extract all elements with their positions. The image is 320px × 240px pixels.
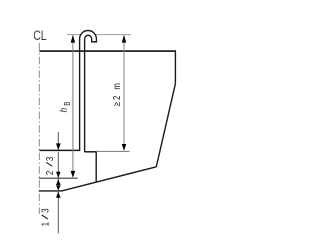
lower deck ledge (right of pipe) — [85, 151, 97, 153]
dimension &ge;2m top arrowhead — [122, 35, 126, 43]
svg-text:1: 1 — [40, 222, 51, 226]
hull side slant — [156, 84, 175, 167]
label 1/3 — [40, 208, 51, 226]
top extension line (level of gooseneck) — [67, 34, 131, 36]
svg-text:CL: CL — [33, 27, 46, 43]
hull side vertical — [174, 51, 176, 84]
air pipe left leg inner wall — [84, 39, 86, 152]
centerline CL (dash-dot) — [38, 43, 40, 214]
svg-text:2: 2 — [44, 171, 55, 175]
upper deck line — [39, 50, 176, 52]
svg-text:3: 3 — [40, 208, 51, 212]
up arrowhead below line C — [56, 192, 61, 198]
left dimension column stub shaft — [57, 132, 59, 145]
left dimension column main shaft — [57, 152, 59, 234]
svg-text:3: 3 — [44, 157, 55, 161]
dimension hB top arrowhead — [71, 35, 75, 43]
down arrowhead onto line B — [56, 172, 61, 178]
bottom line C — [39, 190, 62, 192]
air pipe gooseneck outer bend — [80, 31, 97, 42]
dimension &ge;2m shaft — [123, 36, 125, 150]
air pipe left leg outer wall — [79, 39, 81, 150]
white mask under gooseneck bend — [79, 30, 97, 43]
label 2/3 — [44, 157, 55, 175]
dimension hB shaft — [72, 36, 74, 177]
air pipe gooseneck inner bend — [85, 35, 92, 41]
gooseneck mouth cap — [91, 41, 97, 43]
lower deck line (left of pipe) — [39, 149, 80, 151]
svg-text:≥2 m: ≥2 m — [111, 81, 122, 106]
lower deck thin extension line — [96, 150, 129, 152]
dimension hB bottom arrowhead — [71, 171, 76, 178]
step vertical at trunk — [95, 152, 97, 183]
up arrowhead below line B — [56, 179, 61, 185]
line B (2/3 - 1/3 boundary) — [39, 177, 78, 179]
bilge slant line — [62, 167, 157, 191]
down arrowhead onto line C — [56, 186, 61, 191]
dimension &ge;2m bottom arrowhead — [122, 144, 127, 151]
down arrowhead onto lower deck — [56, 143, 61, 150]
